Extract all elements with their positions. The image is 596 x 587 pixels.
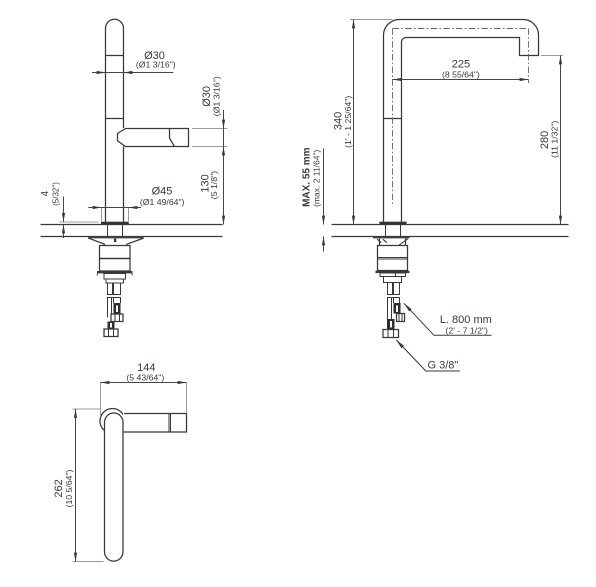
- hoses: [107, 283, 109, 295]
- dim Ø30 horizontal: line and arrows: [92, 72, 173, 74]
- dim 144: [100, 383, 102, 417]
- svg-text:4: 4: [40, 190, 51, 196]
- mounting body: [100, 246, 131, 272]
- right hose nut: [397, 314, 405, 322]
- left hose lower: [107, 298, 109, 318]
- right hose connector: [114, 303, 121, 314]
- dim MAX 55: [323, 148, 325, 224]
- right hose lower: [393, 298, 395, 304]
- spout extension lines: [192, 128, 228, 130]
- base flange: [379, 222, 406, 224]
- svg-text:(1' - 1 25/64"): (1' - 1 25/64"): [343, 96, 353, 148]
- dim 225: [393, 79, 529, 81]
- svg-text:(5/32"): (5/32"): [51, 182, 60, 206]
- counter bottom line: [41, 236, 223, 238]
- svg-text:(Ø1 49/64"): (Ø1 49/64"): [140, 197, 185, 207]
- step 2: [106, 279, 124, 283]
- counter bottom line: [332, 236, 569, 238]
- svg-text:Ø45: Ø45: [152, 186, 173, 198]
- svg-text:(11 1/32"): (11 1/32"): [550, 121, 560, 158]
- mounting body: [378, 246, 408, 271]
- left hose lower: [387, 298, 389, 320]
- right hose connector: [394, 303, 401, 314]
- dim 340: [350, 19, 392, 21]
- svg-text:(10 5/64"): (10 5/64"): [64, 469, 74, 507]
- shank through counter: [385, 225, 387, 237]
- svg-text:(2' - 7 1/2"): (2' - 7 1/2"): [445, 325, 488, 335]
- tube seam lines: [106, 55, 124, 57]
- leader L.800: [404, 303, 492, 335]
- faucet vertical tube with rounded cap: [106, 19, 124, 222]
- arm outline: [123, 414, 187, 433]
- faucet body outline (vertical tube, top bend, down spout): [384, 19, 539, 221]
- left hose connector: [387, 319, 395, 330]
- centerline spout (down): [528, 29, 530, 84]
- counter top line: [332, 224, 569, 226]
- arm white mask: [123, 414, 187, 433]
- tube seam line: [384, 118, 402, 120]
- dim 4 (flange height): [59, 221, 98, 223]
- svg-text:(Ø1 3/16"): (Ø1 3/16"): [211, 76, 221, 116]
- spout joint line: [170, 129, 175, 147]
- lock nut band: [376, 271, 410, 273]
- mounting plate under counter: [88, 237, 143, 239]
- base flange: [101, 222, 129, 224]
- shank through counter: [107, 225, 109, 237]
- centerline horizontal (top): [393, 28, 529, 30]
- right hose lower: [113, 298, 115, 304]
- hose couplings: [107, 294, 121, 296]
- dim 280: [541, 55, 563, 57]
- dim Ø30 vertical + 130 shared line: [223, 110, 225, 225]
- bottom nut: [383, 330, 399, 338]
- leader G3/8: [396, 340, 460, 371]
- handle pill: [105, 413, 124, 561]
- dim Ø45: [101, 208, 103, 222]
- svg-text:(8 55/64"): (8 55/64"): [442, 69, 480, 79]
- counter top line: [41, 224, 223, 226]
- spout arm (pentagon end): [118, 129, 189, 147]
- svg-text:L. 800 mm: L. 800 mm: [440, 314, 492, 326]
- hose couplings: [387, 294, 400, 296]
- lock nut band: [97, 271, 132, 273]
- svg-text:(5 43/64"): (5 43/64"): [126, 372, 164, 382]
- bottom nut: [104, 329, 118, 337]
- step 1: [104, 274, 126, 280]
- mounting plate under counter: [373, 237, 410, 239]
- step 1: [380, 273, 406, 277]
- dim 262: [73, 408, 101, 410]
- svg-text:G 3/8": G 3/8": [427, 360, 458, 372]
- arm joint lines: [168, 414, 170, 433]
- right hose nut: [111, 314, 123, 322]
- step 2: [384, 277, 402, 283]
- left hose connector: [108, 322, 115, 329]
- svg-text:(Ø1 3/16"): (Ø1 3/16"): [136, 60, 176, 70]
- svg-text:(max. 2 11/64"): (max. 2 11/64"): [311, 150, 321, 207]
- base circle (flange from top): [100, 409, 125, 434]
- svg-text:(5 1/8"): (5 1/8"): [209, 171, 219, 199]
- centerline vertical (tube axis): [392, 29, 394, 206]
- hoses: [387, 283, 389, 295]
